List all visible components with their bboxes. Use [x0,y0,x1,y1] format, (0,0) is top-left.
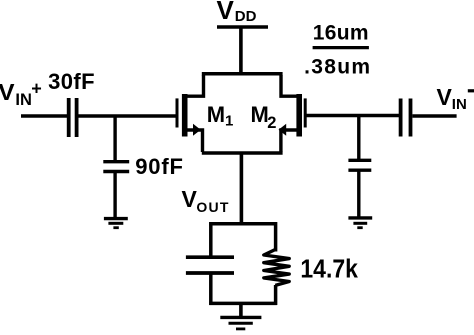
ground left [104,219,128,228]
wire left cap to ground [113,171,116,219]
svg-text:1: 1 [225,113,233,130]
wire M2 source [281,130,298,152]
svg-text:M: M [207,102,225,127]
svg-text:.38um: .38um [304,55,370,78]
resistor 14.7k [264,250,289,286]
power VDD bar [217,25,268,29]
svg-text:IN: IN [452,96,467,113]
svg-text:IN: IN [15,91,32,109]
node VOUT label [182,186,229,215]
wire right cap to ground [357,170,360,218]
transistor M1 source arrow [193,124,201,136]
wire M2 drain [281,75,298,96]
wire top rail (drains) [202,72,283,76]
wire bottom rail (sources) [202,151,283,154]
ground bottom [220,317,261,329]
wire left cap to M1 gate [79,114,179,117]
svg-text:OUT: OUT [196,199,228,215]
wire VDD stem [239,27,243,74]
label M2 [251,102,277,132]
label VDD [217,0,257,25]
svg-text:M: M [251,102,269,127]
capacitor 30fF right [401,99,411,137]
transistor M2 gate bar [304,98,307,127]
node VIN+ label [0,79,42,109]
wire ground stem bottom [239,303,243,317]
svg-text:+: + [31,79,42,99]
svg-text:V: V [182,186,198,212]
wire right branch lower [274,285,278,305]
transistor M2 source arrow [279,124,287,136]
wire M1 drain [186,75,204,96]
wire left node drop [113,116,116,161]
transistor M2 channel bar [296,94,302,137]
wire VOUT stem [240,153,244,222]
svg-text:16um: 16um [313,21,369,44]
label M1 [207,102,234,129]
wire VIN+ input [21,114,68,117]
capacitor 90fF left [103,162,129,172]
wire RC box bottom [209,302,276,306]
svg-text:14.7k: 14.7k [300,255,358,283]
svg-text:DD: DD [235,8,257,25]
svg-text:30fF: 30fF [48,69,95,94]
wire right branch upper [274,222,278,252]
svg-text:V: V [217,0,235,25]
transistor M1 channel bar [182,94,188,137]
wire left branch lower [209,273,213,305]
wire M2 gate to right cap [306,114,399,117]
wire RC box top [209,222,276,226]
capacitor load (in RC tank) [186,257,234,273]
capacitor 30fF left [69,98,77,137]
svg-text:V: V [437,84,453,110]
node VIN- label [437,84,474,113]
wire to VIN- [413,114,457,117]
wire left branch upper [209,222,213,256]
transistor M1 gate bar [176,98,179,127]
fraction bar [313,46,369,49]
svg-text:2: 2 [267,114,276,132]
ground right [348,218,372,228]
capacitor 90fF right [348,160,371,170]
wire M1 source [186,130,203,152]
svg-text:V: V [0,79,15,105]
wire right node drop [357,116,360,162]
svg-text:90fF: 90fF [135,154,183,179]
